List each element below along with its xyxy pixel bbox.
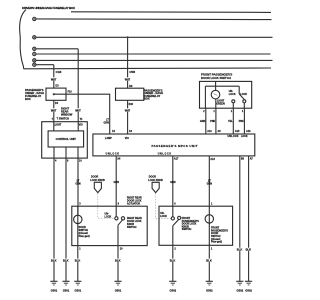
node F (terminal circle) — [33, 63, 36, 66]
wire right actuator pin2 to ground — [172, 245, 174, 281]
svg-text:YEL: YEL — [228, 120, 233, 123]
knob dashed link (right) — [156, 193, 171, 218]
node E (terminal circle) — [33, 59, 36, 62]
svg-text:BOX: BOX — [144, 97, 150, 101]
wire stub top 2 — [77, 122, 79, 131]
wire stub bottom 2 — [65, 147, 67, 158]
svg-text:DRIVER'S UNDER-DASH FUSE/RELAY: DRIVER'S UNDER-DASH FUSE/RELAY BOX — [22, 6, 75, 10]
contact circle right — [243, 100, 246, 103]
wire color BLK — [170, 259, 176, 262]
wire color WHT (V1) — [51, 77, 57, 80]
svg-text:G501: G501 — [115, 288, 122, 292]
ground G502 (4) — [245, 281, 252, 285]
wire V2 lower — [127, 100, 129, 134]
wire left actuator pin1 to ground — [77, 246, 79, 282]
svg-text:LOCK KNOB: LOCK KNOB — [90, 179, 105, 182]
ground G502 (3) — [236, 281, 243, 285]
door lock switch box S1 — [200, 81, 252, 108]
ground G501 (3) — [74, 281, 81, 285]
svg-text:WHT: WHT — [125, 78, 131, 81]
svg-text:UNLOCK: UNLOCK — [158, 152, 172, 155]
wire contact right down — [243, 103, 245, 108]
wire control unit pin4 to ground — [53, 158, 55, 281]
wire color WHT — [125, 108, 131, 111]
wire color WHT — [51, 108, 57, 111]
wire switch box pin1 down — [205, 108, 207, 134]
svg-text:G501: G501 — [51, 288, 58, 292]
wire lever down — [172, 226, 174, 246]
wire contact left down — [232, 103, 234, 108]
wire color BLK — [115, 259, 121, 262]
svg-text:G502: G502 — [170, 288, 177, 292]
inner wire left drop — [204, 86, 206, 108]
svg-text:GRN: GRN — [114, 181, 120, 184]
svg-text:BLK: BLK — [170, 259, 176, 263]
lamp L1 — [211, 90, 220, 99]
front passenger's door lock actuator box A2 — [159, 206, 233, 245]
wire left actuator pin10 to ground — [117, 246, 119, 282]
svg-text:LIGHT: LIGHT — [54, 124, 62, 127]
ground G502 (2) — [206, 281, 213, 285]
svg-text:VIO: VIO — [79, 124, 83, 127]
wire W6 — [36, 64, 54, 66]
wire W4 — [36, 53, 270, 55]
right rear door lock actuator box A1 — [72, 206, 147, 245]
svg-text:GRN: GRN — [200, 120, 206, 123]
wire stub top 1 — [53, 122, 55, 131]
wire W1 — [36, 18, 271, 21]
svg-text:G502: G502 — [237, 288, 244, 292]
wire MPCS A6 down to knob switch — [115, 156, 117, 217]
svg-text:Plun-ged): Plun-ged) — [211, 241, 222, 244]
svg-text:BLK: BLK — [246, 248, 252, 252]
wire color BLK — [51, 259, 57, 262]
wire MPCS A13 down — [208, 156, 210, 246]
wire switch box pin2 down — [215, 108, 217, 134]
wire color BLK — [237, 248, 243, 251]
wire control unit pin9 to ground — [65, 158, 67, 281]
svg-text:LOCK: LOCK — [229, 93, 236, 96]
svg-text:GRN: GRN — [103, 121, 109, 124]
wire color WHT (V2) — [125, 77, 131, 80]
ground G501 (2) — [62, 281, 69, 285]
wire MPCS B8 down — [239, 156, 241, 282]
svg-text:C416: C416 — [56, 71, 62, 74]
svg-text:ACTUATOR: ACTUATOR — [127, 203, 140, 206]
wire color WHT (V3) — [75, 108, 81, 111]
svg-text:C553: C553 — [129, 71, 135, 74]
wire W7 (driver's box bottom edge) — [24, 67, 271, 70]
passenger's MPCS unit box U2 — [93, 134, 255, 156]
svg-text:WINDOW: WINDOW — [61, 112, 73, 116]
svg-text:PNK: PNK — [210, 120, 215, 123]
svg-text:BLK: BLK — [63, 259, 69, 263]
knob dashed link (left) — [98, 193, 115, 218]
svg-text:WHT: WHT — [75, 109, 81, 112]
svg-text:DOOR: DOOR — [91, 175, 98, 178]
svg-text:GRN: GRN — [170, 181, 176, 184]
svg-text:SWITCH: SWITCH — [182, 228, 192, 231]
svg-text:WHT: WHT — [51, 109, 57, 112]
node C (terminal circle) — [33, 47, 36, 50]
switch lever feed — [238, 86, 240, 94]
svg-text:G502: G502 — [245, 288, 252, 292]
svg-text:LOCK: LOCK — [241, 135, 248, 138]
node A (terminal circle) — [33, 17, 36, 20]
svg-text:GRN: GRN — [207, 183, 213, 186]
fuse box F1 (passenger's under-dash fuse/relay box) — [46, 88, 66, 100]
wire relay branch to A4 — [54, 94, 110, 134]
wire W3 — [36, 48, 78, 50]
wire V3 vertical — [77, 49, 79, 122]
wire MPCS A17 down — [172, 156, 174, 217]
svg-text:PASSENGER'S MPCS UNIT: PASSENGER'S MPCS UNIT — [152, 144, 198, 148]
wire V2 vertical — [127, 37, 129, 88]
control unit inner box U1 — [48, 131, 84, 147]
svg-text:Plun-ged): Plun-ged) — [79, 235, 90, 238]
fuse box F2 (passenger's under-dash fuse/relay box) — [116, 88, 144, 100]
svg-text:WHT: WHT — [125, 109, 131, 112]
svg-text:BLK: BLK — [75, 259, 81, 263]
junction dot relay — [53, 93, 55, 95]
wire lever down — [117, 225, 119, 245]
door lock knob symbol (right) — [152, 182, 159, 192]
svg-text:CONTROL UNIT: CONTROL UNIT — [56, 137, 77, 141]
svg-text:DOOR LOCK SWITCH: DOOR LOCK SWITCH — [201, 76, 231, 80]
ground G502 (1) — [169, 281, 176, 285]
inner wire horizontal — [205, 85, 239, 87]
svg-text:G502: G502 — [206, 288, 213, 292]
knob switch contacts (left actuator) — [115, 217, 118, 220]
wire W5 — [36, 59, 272, 61]
svg-text:GREEN: GREEN — [216, 103, 225, 106]
knob switch lever — [118, 220, 123, 225]
lamp feed stub — [215, 81, 217, 90]
svg-text:DOOR: DOOR — [149, 176, 156, 179]
svg-text:BLK: BLK — [237, 248, 243, 252]
svg-text:LOCK: LOCK — [105, 216, 112, 219]
control unit outer box (right rear window switch) — [42, 122, 88, 158]
wire control unit pin10 down — [77, 158, 79, 215]
svg-text:BOX: BOX — [25, 97, 31, 101]
svg-text:VIO: VIO — [125, 137, 129, 140]
node D (terminal circle) — [33, 52, 36, 55]
ground G501 (4) — [114, 281, 121, 285]
svg-text:LOCK: LOCK — [160, 215, 167, 218]
wire color BLK — [63, 259, 69, 262]
wire color BLK — [206, 259, 212, 262]
wire V1 lower — [53, 100, 55, 121]
wire MPCS A7 down — [248, 156, 250, 282]
svg-text:UNLOCK: UNLOCK — [106, 152, 120, 155]
wire color BLK — [75, 259, 81, 262]
svg-text:LAMP: LAMP — [105, 137, 112, 140]
wire stub bottom 3 — [77, 147, 79, 158]
door lock knob symbol (left) — [94, 182, 101, 192]
driver's box torn-edge squiggle — [20, 10, 26, 69]
svg-text:T SWITCH: T SWITCH — [57, 117, 70, 121]
svg-text:G501: G501 — [63, 288, 70, 292]
junction dot W2/V2 — [127, 36, 129, 38]
node B (terminal circle) — [33, 36, 36, 39]
switch lever — [239, 94, 244, 100]
knob switch lever — [173, 219, 179, 225]
wire switch box pin3 down — [232, 108, 234, 134]
svg-text:A15: A15 — [235, 130, 240, 133]
svg-text:D10: D10 — [129, 103, 134, 106]
wire color BLK — [246, 248, 252, 251]
svg-text:F10: F10 — [68, 91, 73, 94]
motor M1 — [77, 206, 79, 245]
svg-text:A17: A17 — [174, 158, 179, 161]
wire right actuator pin1 to ground — [208, 245, 210, 281]
wire lamp to pin — [215, 99, 217, 108]
wire switch box pin4 down — [243, 108, 245, 134]
contact circle left — [232, 100, 235, 103]
wire V1 vertical — [53, 65, 55, 88]
svg-text:SWITCH: SWITCH — [127, 226, 137, 229]
svg-text:BLK: BLK — [206, 259, 212, 263]
wire stub bottom 1 — [53, 147, 55, 158]
wire W2 — [36, 36, 272, 38]
svg-text:WHT: WHT — [51, 78, 57, 81]
ground G501 (1) — [50, 281, 57, 285]
svg-text:A13: A13 — [210, 158, 215, 161]
svg-text:GRN: GRN — [75, 183, 81, 186]
svg-text:BLK: BLK — [115, 259, 121, 263]
svg-text:BLK: BLK — [51, 259, 57, 263]
driver's box top edge wire — [71, 11, 271, 14]
svg-text:G501: G501 — [75, 288, 82, 292]
svg-text:PNK: PNK — [239, 120, 244, 123]
svg-text:A10: A10 — [207, 130, 212, 133]
knob switch contacts (right actuator) — [171, 217, 174, 220]
svg-text:UNLOCK: UNLOCK — [228, 135, 239, 138]
svg-text:A16: A16 — [246, 130, 251, 133]
svg-text:LOCK: LOCK — [240, 93, 247, 96]
motor M2 — [205, 215, 213, 223]
